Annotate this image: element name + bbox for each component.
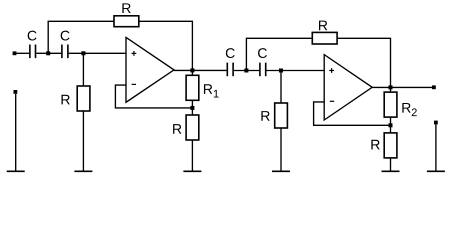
wire R to ground (R2 chain) — [390, 158, 392, 171]
wire C2 to op-amp + input — [69, 52, 126, 54]
minus symbol U1 — [132, 83, 136, 85]
capacitor C1 — [30, 45, 36, 59]
label C (C1) — [28, 31, 37, 41]
ground bar (R1 chain) — [183, 170, 201, 172]
wire R2 to node — [390, 117, 392, 133]
label C (C3) — [226, 48, 235, 58]
wire bottom-right port to ground — [435, 124, 437, 171]
node J2 (after C2) — [81, 51, 85, 55]
wire feedback up from J3 — [246, 38, 312, 70]
wire feedback to output node — [139, 21, 193, 70]
label R (stage2 shunt) — [261, 111, 269, 121]
resistor R feedback stage 2 — [312, 32, 337, 44]
ground bar bottom-right — [427, 170, 445, 172]
resistor R to ground (stage 1 input) — [77, 86, 90, 111]
wire J4 down to R — [280, 71, 282, 104]
node J4 (after C4) — [279, 69, 283, 73]
wire J2 down to R — [82, 53, 84, 86]
label R1 — [204, 84, 212, 94]
ground bar (R2 chain) — [382, 170, 400, 172]
wire C4 to op-amp2 + input — [267, 70, 325, 72]
label R2 — [402, 103, 410, 113]
wire op-amp2 output to terminal — [372, 86, 432, 88]
capacitor C3 — [227, 63, 233, 77]
node below R2 — [389, 123, 393, 127]
label R (below R1) — [173, 124, 181, 134]
wire R to ground (stage2 shunt) — [280, 128, 282, 171]
wire minus feedback loop U1 — [115, 85, 192, 108]
plus symbol U2 — [329, 68, 334, 73]
wire minus feedback loop U2 — [314, 102, 391, 125]
node output stage 2 — [389, 85, 393, 89]
input terminal square — [13, 51, 17, 55]
label R (below R2) — [371, 140, 379, 150]
wire C1 to C2 — [36, 52, 61, 54]
wire R1 to node — [191, 100, 193, 115]
label R (stage1 shunt) — [61, 95, 69, 105]
wire feedback 2 to output node — [337, 38, 390, 87]
output terminal square — [432, 85, 436, 89]
label C (C2) — [61, 31, 70, 41]
label C (C4) — [258, 48, 267, 58]
node output stage 1 — [190, 68, 194, 72]
ground bar bottom-left — [7, 170, 25, 172]
wire output node to R1 — [191, 70, 193, 75]
ground bar (stage1 shunt R) — [74, 170, 92, 172]
node J1 (C1-C2 junction) — [46, 51, 50, 55]
wire C3 to C4 — [234, 70, 259, 72]
label R (feedback 2) — [319, 21, 327, 31]
resistor R to ground (stage 2 input) — [275, 103, 288, 128]
wire bottom-left port to ground — [15, 94, 17, 172]
port terminal square bottom-right — [434, 121, 438, 125]
node J3 (C3-C4 junction) — [244, 69, 248, 73]
op-amp U1 — [126, 37, 174, 102]
port terminal square bottom-left — [14, 90, 18, 94]
wire op-amp1 output to C3 — [174, 69, 226, 71]
label R (feedback 1) — [122, 3, 130, 13]
wire output node to R2 — [390, 87, 392, 92]
ground bar (stage2 shunt R) — [272, 170, 290, 172]
resistor R below R2 — [384, 133, 397, 158]
wire feedback up from J1 — [48, 21, 114, 53]
plus symbol U1 — [132, 51, 137, 56]
op-amp U2 — [324, 55, 372, 120]
capacitor C4 — [260, 63, 266, 77]
resistor R2 — [384, 92, 397, 117]
node below R1 — [190, 106, 194, 110]
resistor R1 — [186, 75, 199, 100]
resistor R feedback stage 1 — [114, 16, 139, 27]
wire input to C1 — [16, 52, 29, 54]
minus symbol U2 — [330, 100, 334, 102]
wire R to ground — [82, 111, 84, 171]
wire R to ground (R1 chain) — [191, 140, 193, 171]
capacitor C2 — [62, 45, 68, 59]
resistor R below R1 — [186, 115, 199, 140]
